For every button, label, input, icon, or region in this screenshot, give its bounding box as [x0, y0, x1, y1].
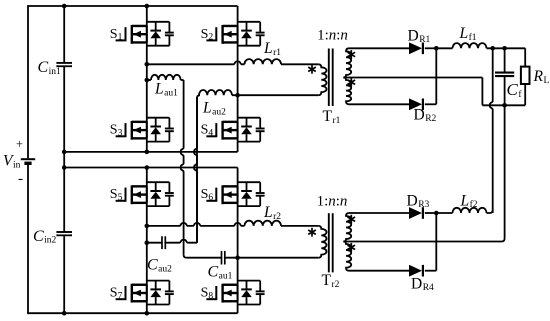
- svg-text:Cau1: Cau1: [208, 264, 233, 282]
- svg-text:Cin1: Cin1: [38, 59, 62, 77]
- svg-text:1:n:n: 1:n:n: [317, 27, 348, 43]
- svg-text:Vin: Vin: [3, 153, 21, 171]
- svg-text:RL: RL: [533, 68, 550, 86]
- svg-text:DR4: DR4: [411, 275, 434, 293]
- svg-text:DR2: DR2: [414, 106, 437, 124]
- svg-text:DR1: DR1: [408, 27, 431, 45]
- svg-text:Lf1: Lf1: [459, 25, 477, 43]
- svg-text:Tr1: Tr1: [323, 108, 341, 126]
- svg-text:S5: S5: [110, 187, 123, 203]
- svg-text:S2: S2: [201, 27, 214, 43]
- svg-text:1:n:n: 1:n:n: [317, 193, 348, 209]
- svg-text:Lf2: Lf2: [460, 192, 478, 210]
- svg-text:S6: S6: [201, 187, 214, 203]
- svg-text:Cin2: Cin2: [33, 228, 57, 246]
- svg-text:S1: S1: [110, 27, 123, 43]
- svg-text:S4: S4: [201, 123, 214, 139]
- svg-text:+: +: [16, 137, 23, 151]
- svg-text:S8: S8: [201, 286, 214, 302]
- svg-text:Tr2: Tr2: [322, 272, 340, 290]
- svg-text:S7: S7: [110, 286, 123, 302]
- svg-text:Lr1: Lr1: [263, 40, 281, 58]
- svg-text:Lau1: Lau1: [154, 81, 178, 99]
- svg-text:Cau2: Cau2: [147, 257, 172, 275]
- svg-text:Lau2: Lau2: [202, 100, 226, 118]
- svg-text:-: -: [18, 171, 23, 187]
- svg-text:Lr2: Lr2: [263, 204, 281, 222]
- svg-text:DR3: DR3: [407, 192, 430, 210]
- svg-text:S3: S3: [110, 123, 123, 139]
